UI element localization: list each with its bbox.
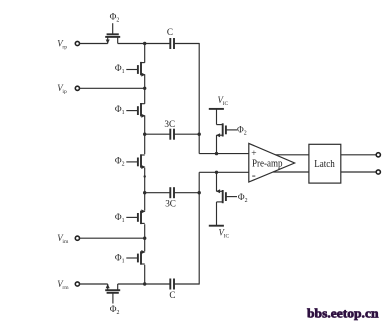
capacitor 3C bottom [170, 187, 174, 198]
wire Vrp terminal to switch M1 [79, 43, 107, 45]
wire M7 source to + input wire [216, 135, 218, 153]
wire C2 to right bus [174, 283, 200, 285]
svg-text:C: C [167, 27, 173, 37]
input terminal Vim [75, 236, 79, 240]
svg-text:Φ1: Φ1 [115, 212, 125, 224]
wire rail 3C bottom node to M5 source [144, 193, 146, 211]
junction node B [143, 282, 146, 285]
watermark bbs.eetop.cn [305, 297, 385, 327]
svg-text:Latch: Latch [314, 159, 335, 170]
output terminal top [376, 153, 380, 157]
wire Vip terminal to rail [79, 87, 144, 89]
wire rail M3 source to 3C top node [144, 116, 146, 135]
wire Vim terminal to rail [79, 237, 144, 239]
svg-text:Φ1: Φ1 [115, 252, 125, 264]
capacitor C top [170, 38, 174, 49]
op-amp U1 Pre-amp triangle [249, 143, 295, 182]
VIC supply bar top [209, 108, 224, 110]
svg-text:bbs.eetop.cn: bbs.eetop.cn [307, 307, 379, 321]
wire 3C bottom right to bus [174, 192, 200, 194]
junction 3C top node [143, 133, 146, 136]
svg-text:VIC: VIC [218, 95, 229, 107]
svg-text:Φ2: Φ2 [115, 155, 125, 167]
wire U1 bottom output to latch [273, 171, 309, 173]
latch block U2 [309, 144, 341, 183]
wire rail node A to M2 drain [144, 44, 146, 63]
wire latch bottom output [341, 171, 376, 173]
svg-text:Φ2: Φ2 [110, 304, 120, 316]
svg-text:Vip: Vip [57, 83, 67, 95]
svg-text:-: - [252, 168, 256, 182]
transistor M5 (phi1) [126, 209, 145, 224]
svg-text:Φ2: Φ2 [238, 192, 248, 204]
wire M1 to capacitor C1, node A [118, 43, 171, 45]
wire rail M2 source to M3 drain [144, 75, 146, 104]
transistor M9 (phi2 to VIC) [216, 189, 237, 203]
wire rail M4 source to 3C bottom node [144, 168, 146, 193]
svg-text:Vrp: Vrp [57, 38, 67, 50]
wire Vrm terminal to switch M8 [79, 283, 107, 285]
wire M8 to capacitor C2, node B [118, 283, 171, 285]
wire rail 3C top node to M4 drain [144, 134, 146, 154]
input terminal Vrm [75, 282, 79, 286]
transistor M2 (phi1) [126, 62, 145, 77]
svg-text:3C: 3C [164, 119, 175, 129]
wire right bus bottom vertical [198, 172, 200, 284]
junction 3C bottom node [143, 191, 146, 194]
svg-text:Vrm: Vrm [57, 279, 69, 291]
wire 3C top right to bus [174, 133, 200, 135]
svg-text:Φ2: Φ2 [237, 124, 247, 136]
wire latch top output [341, 154, 376, 156]
wire M9 drain to VIC bar [216, 202, 218, 226]
VIC supply bar bottom [209, 225, 224, 227]
junction bus / 3C bottom [198, 191, 201, 194]
transistor M7 (phi2 to VIC) [216, 123, 237, 137]
wire VIC bar to M7 drain [216, 109, 218, 125]
capacitor C bottom [170, 279, 174, 290]
svg-text:Φ2: Φ2 [110, 12, 120, 24]
junction Vim node [143, 237, 146, 240]
wire rail M6 drain to node B [144, 265, 146, 284]
junction mid-rail tap [144, 175, 146, 177]
svg-text:Φ1: Φ1 [115, 104, 125, 116]
svg-text:Pre-amp: Pre-amp [252, 159, 283, 170]
wire C1 to right bus [174, 43, 200, 45]
wire - input wire to M9 source [216, 172, 218, 191]
junction M9 source tap [215, 171, 218, 174]
transistor M4 (phi2) [126, 154, 145, 169]
transistor M6 (phi1) [126, 250, 145, 265]
transistor M8 (phi2 switch on Vrm) [105, 284, 120, 304]
junction Vip node [143, 87, 146, 90]
wire rail M5 drain to Vim node [144, 224, 146, 238]
transistor M3 (phi1) [126, 103, 145, 118]
wire 3C top left [145, 133, 171, 135]
junction node A [143, 42, 146, 45]
svg-text:VIC: VIC [219, 227, 230, 239]
input terminal Vip [75, 86, 79, 90]
svg-text:Φ1: Φ1 [115, 63, 125, 75]
svg-text:3C: 3C [165, 199, 176, 209]
wire rail Vim node to M6 source [144, 238, 146, 251]
svg-text:+: + [251, 149, 256, 159]
wire right bus top vertical [198, 43, 200, 154]
svg-text:Vim: Vim [57, 233, 69, 245]
wire bus to pre-amp - input [199, 171, 249, 173]
wire U1 top output to latch [275, 154, 309, 156]
svg-text:C: C [169, 290, 175, 300]
wire 3C bottom left [145, 192, 171, 194]
capacitor 3C top [170, 129, 174, 140]
input terminal Vrp [75, 41, 79, 45]
transistor M1 (phi2 switch on Vrp) [105, 23, 120, 44]
junction M7 source tap [215, 152, 218, 155]
output terminal bottom [376, 170, 380, 174]
junction bus / 3C top [198, 133, 201, 136]
wire bus to pre-amp + input [199, 153, 249, 155]
